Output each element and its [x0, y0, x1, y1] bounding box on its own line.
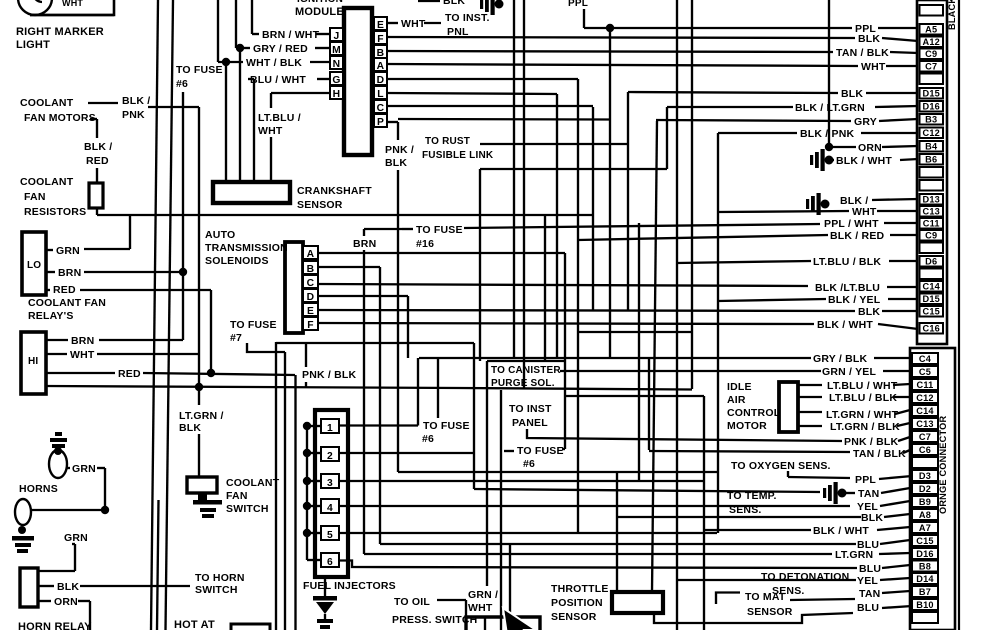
svg-text:B4: B4 — [925, 141, 938, 151]
pin box C5 (orange conn) y366 — [912, 366, 938, 377]
svg-text:C12: C12 — [923, 128, 940, 138]
svg-text:SENSOR: SENSOR — [747, 606, 793, 618]
crankshaft sensor box — [213, 182, 290, 203]
svg-text:C13: C13 — [916, 419, 933, 429]
svg-text:TO RUST: TO RUST — [425, 136, 470, 147]
wire BLK to horn switch — [80, 585, 190, 587]
svg-text:C7: C7 — [919, 432, 931, 442]
svg-text:D2: D2 — [919, 484, 931, 494]
wire pin A to C7 WHT — [387, 64, 858, 66]
throttle position sensor box — [612, 592, 663, 613]
svg-text:PPL / WHT: PPL / WHT — [824, 218, 879, 230]
wire WHT to x199 — [97, 353, 199, 355]
pin box C9 (black conn) y48.5 — [920, 49, 944, 60]
svg-text:BLK: BLK — [385, 157, 407, 169]
svg-text:1: 1 — [327, 423, 333, 434]
svg-text:H: H — [333, 89, 341, 100]
svg-text:TO FUSE: TO FUSE — [176, 64, 223, 76]
svg-text:GRN: GRN — [56, 245, 80, 257]
svg-text:RESISTORS: RESISTORS — [24, 206, 86, 218]
svg-text:IGNITION: IGNITION — [297, 0, 343, 5]
wire BRN/WHT lead: top vertical x252 — [251, 0, 253, 34]
svg-text:YEL: YEL — [857, 575, 878, 587]
svg-text:SENS.: SENS. — [729, 504, 762, 516]
resistor coolant fan resistor — [89, 183, 103, 208]
wire HI relay bottom long y386 — [46, 386, 460, 388]
wire GRY/RED to pin M — [315, 47, 330, 49]
wire vertical x628 — [627, 92, 629, 311]
svg-text:GRN /: GRN / — [468, 589, 498, 601]
svg-text:F: F — [307, 320, 314, 331]
svg-text:LT.BLU /: LT.BLU / — [258, 112, 301, 124]
svg-text:BLK /LT.BLU: BLK /LT.BLU — [815, 282, 880, 294]
wire IAC stub4 LT.GRN/BLK — [798, 425, 822, 427]
svg-text:LT.GRN / BLK: LT.GRN / BLK — [830, 421, 900, 433]
wire BLK/RED to resistor — [96, 168, 98, 183]
svg-text:B6: B6 — [925, 154, 937, 164]
svg-text:HI: HI — [28, 356, 38, 367]
svg-text:D: D — [307, 292, 315, 303]
wire ORN to B4 — [829, 146, 856, 148]
svg-text:TO OXYGEN SENS.: TO OXYGEN SENS. — [731, 460, 831, 472]
svg-text:C11: C11 — [917, 380, 934, 390]
module pin N — [330, 56, 343, 69]
svg-text:BLK / PNK: BLK / PNK — [800, 128, 855, 140]
pin box C14 (black conn) y281 — [920, 281, 944, 292]
wire GRN to vertical x130 — [84, 248, 130, 250]
pin box D13 (black conn) y194 — [920, 194, 944, 205]
wire solenoid D vertical x408 extension — [407, 296, 409, 358]
ground below fuel injectors — [324, 577, 326, 597]
module pin H — [330, 86, 343, 99]
wire injector4 to B9 — [339, 505, 850, 507]
pin box C13 (black conn) y206 — [920, 206, 944, 217]
svg-text:5: 5 — [327, 530, 333, 541]
svg-text:WHT: WHT — [861, 61, 886, 73]
svg-text:B: B — [307, 264, 315, 275]
black connector outer — [917, 0, 947, 344]
pin box D15 (black conn) y88 — [920, 88, 944, 99]
injector pin 2 — [321, 447, 339, 461]
wire vertical x487 — [486, 361, 488, 586]
svg-text:GRY / BLK: GRY / BLK — [813, 353, 868, 365]
svg-text:D6: D6 — [925, 256, 937, 266]
module pin D — [374, 72, 387, 85]
pin box C16 (black conn) y323 — [920, 323, 944, 334]
svg-text:FAN MOTORS: FAN MOTORS — [24, 112, 96, 124]
module pin M — [330, 42, 343, 55]
wire canister to C5 GRN/YEL — [560, 370, 821, 372]
pin box B10 (orange conn) y599 — [912, 599, 938, 610]
pin box B8 (orange conn) y560.5 — [912, 561, 938, 572]
svg-text:C14: C14 — [916, 406, 934, 416]
wire vertical x474 — [473, 343, 475, 489]
wire GRY/BLK to C4 — [419, 357, 811, 359]
svg-text:HORN RELAY: HORN RELAY — [18, 621, 92, 630]
svg-text:J: J — [334, 31, 340, 42]
wire vertical x557 (pin L chain) — [556, 94, 558, 358]
svg-text:LT.GRN / WHT: LT.GRN / WHT — [826, 409, 899, 421]
svg-text:GRY: GRY — [854, 116, 877, 128]
wire BLK/YEL to D15b — [718, 299, 826, 301]
svg-text:GRN: GRN — [72, 463, 96, 475]
svg-text:COOLANT FAN: COOLANT FAN — [28, 297, 106, 309]
svg-text:C12: C12 — [916, 393, 933, 403]
svg-text:TO MAT: TO MAT — [745, 591, 786, 603]
svg-text:A7: A7 — [919, 523, 931, 533]
wire vertical x704 — [703, 396, 705, 630]
injector pin 3 — [321, 474, 339, 488]
svg-text:PNK / BLK: PNK / BLK — [844, 436, 899, 448]
wire WHT/BLK to pin N — [310, 61, 330, 63]
svg-text:WHT: WHT — [401, 18, 426, 30]
wire ORN corner down — [78, 600, 90, 602]
wire solenoid D — [318, 295, 408, 297]
wire IAC stub3 LT.GRN/WHT — [798, 411, 822, 413]
svg-text:LT.BLU / WHT: LT.BLU / WHT — [827, 380, 898, 392]
wire vertical x656 GRY/TPS — [652, 121, 657, 592]
junction dot 105,510 — [101, 506, 109, 514]
horn lower ground dot — [18, 526, 26, 534]
pin box C13 (orange conn) y418 — [912, 418, 938, 429]
wire PPL/WHT to C11 (from fuse16) — [464, 224, 820, 228]
wire vertical bus x154 — [151, 0, 158, 630]
wire vertical x639 — [638, 223, 640, 481]
wire injector6 step to B8 BLU — [339, 561, 857, 569]
wire vertical x380 (solenoid B) — [379, 267, 381, 544]
wire solenoid B — [318, 266, 380, 268]
junction dots injector bus — [303, 422, 311, 430]
wire fuse6 mid dash left — [504, 450, 514, 452]
wire vertical x211 down to RED bus — [210, 290, 212, 373]
pin box D6 (black conn) y256 — [920, 256, 944, 267]
svg-text:MOTOR: MOTOR — [727, 420, 767, 432]
relay LO coolant fan relay box — [22, 232, 46, 295]
svg-text:PPL: PPL — [855, 474, 876, 486]
wire vertical x649 — [648, 358, 650, 450]
svg-text:LIGHT: LIGHT — [16, 39, 50, 51]
wire vertical x480 canister link — [479, 169, 481, 361]
svg-text:A12: A12 — [923, 37, 940, 47]
pin box D14 (orange conn) y573 — [912, 573, 938, 584]
svg-text:BLK / WHT: BLK / WHT — [817, 319, 873, 331]
svg-text:G: G — [332, 75, 340, 86]
svg-text:A: A — [377, 61, 385, 72]
wire LT.BLU/BLK to D6 — [677, 261, 811, 263]
svg-text:TAN / BLK: TAN / BLK — [853, 448, 906, 460]
svg-text:C16: C16 — [923, 323, 940, 333]
wire splice B6 to label — [830, 159, 834, 161]
svg-text:RIGHT MARKER: RIGHT MARKER — [16, 26, 104, 38]
module pin J — [330, 28, 343, 41]
solenoid pin F — [303, 317, 318, 330]
svg-text:B9: B9 — [919, 497, 931, 507]
wire WHT to inst pnl — [424, 22, 441, 24]
svg-text:SENSOR: SENSOR — [551, 611, 597, 623]
wire pin F to A12 BLK — [387, 37, 855, 38]
svg-text:BLK: BLK — [858, 33, 880, 45]
svg-text:BLK / RED: BLK / RED — [830, 230, 885, 242]
wire injector2 stub — [339, 452, 474, 454]
svg-text:B10: B10 — [916, 600, 933, 610]
svg-text:D3: D3 — [919, 471, 931, 481]
mouse cursor arrow — [503, 608, 536, 630]
svg-text:BLU / WHT: BLU / WHT — [250, 74, 306, 86]
wire vertical x240 to crankshaft sensor — [239, 48, 241, 183]
svg-text:PNK /: PNK / — [385, 144, 414, 156]
wire RED to corner x211 — [80, 289, 211, 291]
ignition module body — [344, 8, 372, 155]
injector left bus x307 with dots — [306, 426, 308, 560]
wire BLK/PNK to C12a — [718, 132, 797, 134]
wire GRY/RED lead: top vertical x236 — [235, 0, 237, 48]
svg-text:WHT: WHT — [852, 206, 877, 218]
oil pressure switch box (partial) — [466, 617, 540, 630]
pin box D15 (black conn) y293.5 — [920, 294, 944, 305]
svg-text:GRN: GRN — [64, 532, 88, 544]
auto trans solenoid connector body — [285, 242, 303, 333]
svg-text:FAN: FAN — [226, 490, 248, 502]
wire pin H lead — [271, 92, 330, 94]
wire IAC stub2 LT.BLU/BLK — [798, 396, 822, 398]
pin box A12 (black conn) y36.5 — [920, 37, 944, 48]
svg-text:BLK / WHT: BLK / WHT — [836, 155, 892, 167]
pin box C7 (black conn) y61 — [920, 61, 944, 72]
pin box empty (orange conn) y612 — [912, 612, 938, 623]
wire vertical x418 (fuse6 first) — [417, 358, 419, 426]
pin box B4 (black conn) y141 — [920, 141, 944, 152]
svg-text:BLK: BLK — [858, 306, 880, 318]
wire vertical BLK/PNK bus x199 — [198, 107, 200, 405]
pin box A5 (black conn) y24 — [920, 24, 944, 35]
svg-text:CONTROL: CONTROL — [727, 407, 781, 419]
wire TPS bottom to B10 BLU — [654, 613, 853, 623]
wire vertical x438 to fuse6 label — [437, 358, 439, 418]
junction dot 183,272 — [179, 268, 187, 276]
solenoid pin A — [303, 246, 318, 259]
pin box C11 (black conn) y218 — [920, 218, 944, 229]
svg-text:N: N — [333, 59, 341, 70]
wire vertical x271 to crankshaft sensor — [270, 137, 272, 183]
svg-text:HORNS: HORNS — [19, 483, 58, 495]
wire YEL to D14 — [677, 579, 856, 581]
wire fuse16 corner to BRN vertical x364 — [364, 228, 402, 230]
coolant fan switch box — [187, 477, 217, 493]
svg-text:PPL: PPL — [568, 0, 588, 9]
svg-text:C6: C6 — [919, 445, 931, 455]
svg-text:BLU: BLU — [859, 563, 881, 575]
wire fuse6 mid corner right — [562, 448, 565, 450]
injector pin 1 — [321, 419, 339, 433]
svg-text:WHT: WHT — [62, 0, 83, 8]
solenoid pin B — [303, 261, 318, 274]
wire oxygen bracket — [787, 471, 789, 477]
wire vertical x617 TPS — [616, 472, 618, 592]
junction dot 829,147 — [825, 143, 833, 151]
svg-text:MODULE: MODULE — [295, 6, 344, 18]
svg-text:TAN: TAN — [858, 488, 879, 500]
wire PPL to A5 — [584, 27, 852, 29]
svg-text:B8: B8 — [919, 561, 931, 571]
wire vertical x226 to crankshaft sensor — [225, 62, 227, 183]
svg-text:3: 3 — [327, 478, 333, 489]
wire RED from HI relay — [46, 372, 115, 374]
pin box empty (black conn) y167 — [920, 167, 944, 178]
svg-text:POSITION: POSITION — [551, 597, 603, 609]
wire stub fan motors down to BLK/RED — [90, 118, 97, 120]
module pin E — [374, 17, 387, 30]
svg-text:#6: #6 — [176, 78, 188, 90]
svg-text:BLK / WHT: BLK / WHT — [813, 525, 869, 537]
wire BRN to junction at x183 — [84, 271, 183, 273]
svg-text:BLK / YEL: BLK / YEL — [828, 294, 881, 306]
wire RED bus to x295 — [143, 373, 295, 375]
pin box C9 (black conn) y230 — [920, 230, 944, 241]
coolant fan switch stem — [198, 493, 207, 502]
pin box empty (black conn) y180 — [920, 180, 944, 191]
pin box C6 (orange conn) y444 — [912, 444, 938, 455]
splice symbol near D2 — [823, 482, 847, 504]
pin box empty (orange conn) y457 — [912, 457, 938, 468]
svg-text:BRN / WHT: BRN / WHT — [262, 29, 320, 41]
svg-text:WHT: WHT — [70, 349, 95, 361]
wire GRN from LO relay — [46, 249, 53, 251]
relay HI coolant fan relay box — [21, 332, 46, 394]
wire pin C horizontal — [387, 105, 593, 107]
wire coolant fan motors to BLK/PNK label — [88, 102, 118, 104]
svg-text:TO TEMP.: TO TEMP. — [727, 490, 777, 502]
svg-text:D16: D16 — [916, 549, 933, 559]
svg-text:C9: C9 — [925, 230, 937, 240]
injector pin 5 — [321, 526, 339, 540]
svg-text:ORNGE CONNECTOR: ORNGE CONNECTOR — [938, 416, 948, 514]
svg-text:ORN: ORN — [858, 142, 882, 154]
wire BLU/WHT corner — [253, 79, 255, 183]
svg-text:D13: D13 — [923, 194, 940, 204]
wire BLU/WHT to pin G — [317, 78, 330, 80]
wire vertical x296 injector feed — [294, 375, 296, 630]
orange connector outer — [910, 348, 955, 630]
wire vertical x677 — [676, 0, 678, 630]
svg-text:C11: C11 — [923, 218, 940, 228]
svg-text:C: C — [307, 278, 315, 289]
svg-text:#16: #16 — [416, 238, 434, 250]
wire vertical x524 — [523, 0, 525, 389]
module pin C — [374, 100, 387, 113]
pin box B6 (black conn) y154 — [920, 154, 944, 165]
svg-text:#7: #7 — [230, 332, 242, 344]
svg-text:PURGE SOL.: PURGE SOL. — [491, 378, 555, 389]
svg-text:TO INST: TO INST — [509, 403, 552, 415]
svg-text:COOLANT: COOLANT — [20, 97, 74, 109]
wire RED from LO relay — [46, 289, 50, 291]
module pin A — [374, 58, 387, 71]
pin box C4 (orange conn) y353 — [912, 353, 938, 364]
svg-text:4: 4 — [327, 503, 333, 514]
svg-text:BRN: BRN — [58, 267, 81, 279]
svg-text:BLK /: BLK / — [122, 95, 150, 107]
wire WHT from HI relay — [46, 353, 67, 355]
junction dot 211,373 — [207, 369, 215, 377]
svg-text:LT.BLU / BLK: LT.BLU / BLK — [813, 256, 881, 268]
svg-text:PANEL: PANEL — [512, 417, 548, 429]
svg-text:TO FUSE: TO FUSE — [416, 224, 463, 236]
pin box A7 (orange conn) y522 — [912, 522, 938, 533]
wire BLU to C15b — [380, 543, 856, 545]
svg-text:TAN / BLK: TAN / BLK — [836, 47, 889, 59]
svg-text:P: P — [377, 117, 384, 128]
wire D15 BLK row — [628, 92, 838, 93]
wire pin E to WHT — [387, 22, 398, 24]
pin box B3 (black conn) y114 — [920, 114, 944, 125]
svg-text:BRN: BRN — [71, 335, 94, 347]
idle air control motor box — [779, 382, 798, 432]
svg-text:IDLE: IDLE — [727, 381, 752, 393]
wire BRN from HI relay — [46, 339, 68, 341]
wire row y119 (pinP area) — [398, 118, 610, 121]
svg-text:M: M — [332, 45, 341, 56]
pin box C12 (orange conn) y392 — [912, 392, 938, 403]
svg-text:GRY / RED: GRY / RED — [253, 43, 308, 55]
svg-text:TAN: TAN — [859, 588, 880, 600]
wire BRN from LO relay — [46, 271, 55, 273]
svg-text:C4: C4 — [919, 354, 932, 364]
wire horn2 to junction — [31, 509, 105, 511]
junction dot 240,48 — [236, 44, 244, 52]
svg-text:C7: C7 — [925, 61, 937, 71]
svg-text:6: 6 — [327, 557, 333, 568]
svg-text:LT.BLU / BLK: LT.BLU / BLK — [829, 392, 897, 404]
wire vertical x158 lower — [157, 500, 159, 630]
ground bars below horn2 — [12, 536, 34, 541]
solenoid pin D — [303, 289, 318, 302]
wire vertical x545 — [544, 215, 546, 361]
svg-text:GRN / YEL: GRN / YEL — [822, 366, 877, 378]
svg-text:BLACK: BLACK — [947, 0, 957, 30]
injector pin 6 — [321, 553, 339, 567]
module pin P — [374, 114, 387, 127]
svg-text:A8: A8 — [919, 510, 931, 520]
svg-text:SENSOR: SENSOR — [297, 199, 343, 211]
svg-text:B3: B3 — [925, 114, 937, 124]
svg-text:LT.GRN: LT.GRN — [835, 549, 873, 561]
svg-text:BLK: BLK — [57, 581, 79, 593]
wire vertical x667 — [666, 107, 668, 169]
svg-text:#6: #6 — [523, 458, 535, 470]
wire BLK to A8 — [617, 516, 861, 518]
svg-text:FAN: FAN — [24, 191, 46, 203]
fuel injector outer box — [315, 410, 348, 577]
wire vertical TO FUSE #6 x183 — [182, 92, 184, 340]
wire GRN2 to horn relay — [72, 543, 75, 545]
wire vertical x276 down — [275, 342, 277, 630]
svg-text:F: F — [377, 34, 384, 45]
wire pin D horizontal — [387, 78, 578, 80]
wire fuse7 bracket — [247, 343, 285, 352]
svg-text:PNK / BLK: PNK / BLK — [302, 369, 357, 381]
wire horizontal y169 — [480, 168, 667, 170]
wire injector5 long y533 — [339, 532, 717, 534]
injector pin 4 — [321, 499, 339, 513]
svg-text:RELAY'S: RELAY'S — [28, 310, 74, 322]
svg-text:E: E — [377, 20, 384, 31]
svg-text:C15: C15 — [923, 306, 940, 316]
wire to oil press switch — [437, 599, 466, 601]
horn upper symbol — [55, 432, 62, 436]
horn lower symbol — [15, 499, 31, 525]
svg-text:TO OIL: TO OIL — [394, 596, 430, 608]
wire vertical x364 BRN — [363, 250, 365, 554]
